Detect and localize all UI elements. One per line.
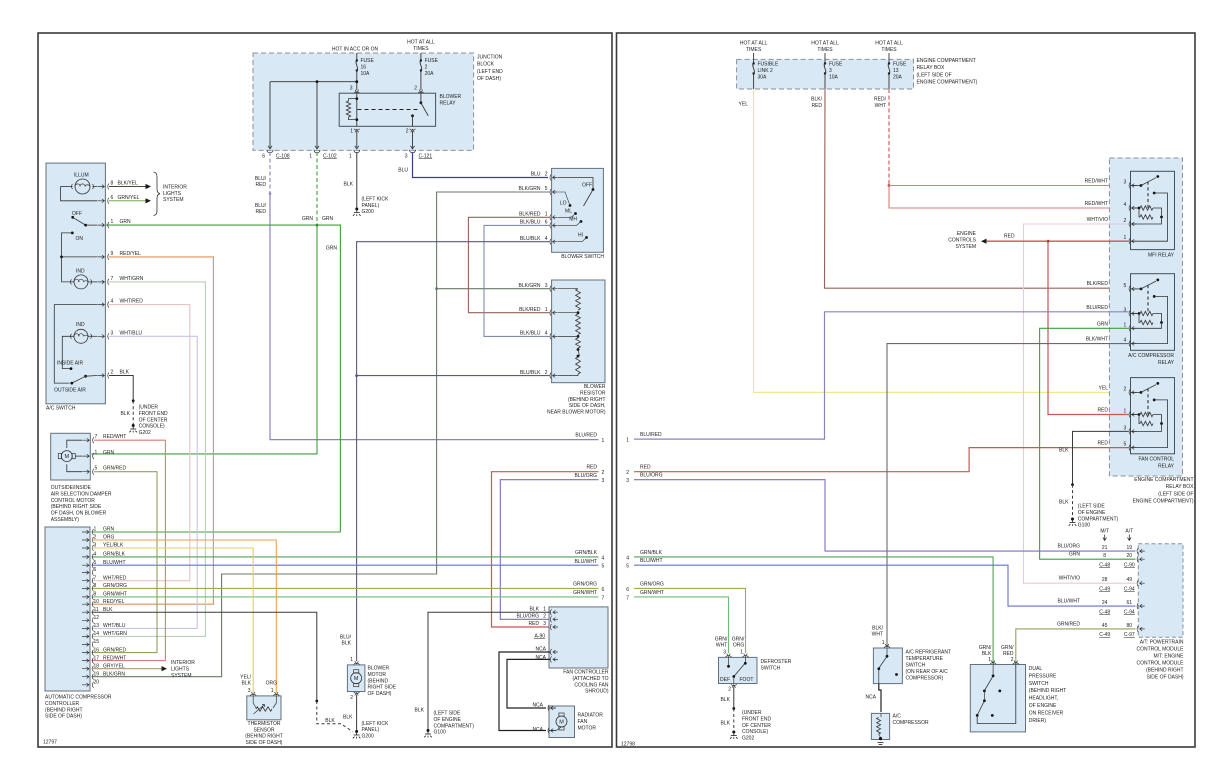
svg-text:3: 3: [1124, 308, 1127, 314]
svg-text:DEFROSTER: DEFROSTER: [761, 659, 792, 665]
svg-text:LIGHTS: LIGHTS: [171, 667, 190, 673]
svg-text:13: 13: [94, 623, 100, 629]
svg-text:2: 2: [626, 470, 629, 476]
svg-text:BLK: BLK: [982, 651, 992, 657]
svg-text:BLU/WHT: BLU/WHT: [103, 560, 126, 566]
automatic compressor controller box: [45, 527, 90, 691]
svg-text:MOTOR: MOTOR: [368, 672, 387, 678]
svg-text:RED/WHT: RED/WHT: [103, 655, 126, 661]
off-page GRN/ORG 6 from ACC pin8: [92, 587, 599, 589]
svg-text:(UNDER: (UNDER: [742, 710, 762, 716]
svg-text:TIMES: TIMES: [746, 47, 762, 53]
svg-text:10: 10: [94, 599, 100, 605]
svg-text:GRN/YEL: GRN/YEL: [118, 195, 140, 201]
svg-text:RED: RED: [1097, 441, 1108, 447]
pin 4 WHT/RED inner loop: [54, 305, 97, 384]
svg-text:5: 5: [95, 466, 98, 472]
svg-text:OF ENGINE: OF ENGINE: [1078, 510, 1106, 516]
wire RED off-page to fan control relay pin5: [634, 448, 1129, 472]
svg-text:RED: RED: [586, 465, 597, 471]
page frame right: [617, 33, 1196, 747]
ACC pin 17 RED/WHT: [82, 659, 89, 663]
svg-text:RELAY BOX: RELAY BOX: [1166, 484, 1195, 490]
wire NCA inner loop: [507, 659, 550, 708]
svg-text:BLU/RED: BLU/RED: [640, 432, 662, 438]
svg-text:GRN/RED: GRN/RED: [1057, 621, 1080, 627]
wire BLK fan relay pin3 to G100: [1073, 431, 1129, 484]
wire GRN/RED dual pressure to PCM: [1016, 629, 1136, 663]
svg-text:BLU/BLK: BLU/BLK: [520, 236, 541, 242]
svg-text:19: 19: [94, 671, 100, 677]
wire WHT/BLU to ACC pin13: [92, 336, 198, 628]
blower relay: [339, 93, 435, 126]
svg-text:16: 16: [94, 647, 100, 653]
svg-text:LIGHTS: LIGHTS: [163, 191, 182, 197]
svg-text:OUTSIDE AIR: OUTSIDE AIR: [54, 387, 86, 393]
svg-text:BLK: BLK: [121, 411, 131, 417]
junction block J/B: [253, 53, 474, 150]
svg-text:RELAY: RELAY: [1158, 464, 1175, 470]
svg-text:A/C REFRIGERANT: A/C REFRIGERANT: [906, 650, 952, 656]
svg-text:BLU/ORG: BLU/ORG: [574, 473, 597, 479]
svg-text:8: 8: [1103, 553, 1106, 559]
svg-text:CONTROL MODULE: CONTROL MODULE: [1136, 661, 1184, 667]
blower switch internals: [558, 178, 593, 190]
svg-text:5: 5: [1124, 283, 1127, 289]
svg-text:21: 21: [1102, 545, 1108, 551]
svg-text:OF DASH, ON BLOWER: OF DASH, ON BLOWER: [51, 511, 107, 517]
dual pressure switch box: [970, 665, 1025, 732]
svg-text:HOT AT ALL: HOT AT ALL: [740, 41, 768, 47]
fuse 16 10A: [356, 53, 358, 61]
svg-text:INSIDE AIR: INSIDE AIR: [57, 360, 84, 366]
svg-text:RED/WHT: RED/WHT: [1085, 201, 1108, 207]
svg-text:FAN CONTROL: FAN CONTROL: [1138, 457, 1174, 463]
svg-text:BLK: BLK: [325, 718, 335, 724]
pin 6 GRN/YEL: [97, 199, 104, 203]
svg-text:6: 6: [626, 587, 629, 593]
blower switch pin 6 BLK/BLU: [550, 222, 551, 228]
svg-text:WHT/BLU: WHT/BLU: [103, 623, 126, 629]
svg-text:HI: HI: [578, 233, 583, 239]
svg-text:12797: 12797: [43, 740, 57, 746]
on contact: [71, 232, 74, 235]
svg-text:IND: IND: [76, 268, 85, 274]
svg-text:3: 3: [626, 478, 629, 484]
svg-text:17: 17: [94, 655, 100, 661]
ACC pin 4 GRN/BLK: [82, 555, 89, 559]
blower motor box: [347, 665, 365, 692]
svg-text:RED/YEL: RED/YEL: [103, 599, 125, 605]
svg-text:ENGINE: ENGINE: [957, 231, 977, 237]
wire YEL fusible link to fan control relay: [754, 89, 1129, 392]
svg-text:OF ENGINE: OF ENGINE: [434, 717, 462, 723]
svg-text:BLK: BLK: [530, 606, 540, 612]
svg-text:GRN: GRN: [1069, 552, 1081, 558]
svg-text:ML: ML: [565, 209, 572, 215]
svg-text:RADIATOR: RADIATOR: [578, 713, 604, 719]
ACC pin 12: [82, 619, 89, 623]
svg-text:45: 45: [1102, 623, 1108, 629]
svg-text:WHT/GRN: WHT/GRN: [103, 631, 127, 637]
svg-text:NCA: NCA: [532, 727, 543, 733]
svg-text:FUSE: FUSE: [829, 62, 843, 68]
ACC pin 10 RED/YEL: [82, 602, 89, 606]
wire RED/YEL to ACC pin10: [92, 257, 214, 604]
svg-text:FRONT END: FRONT END: [742, 716, 771, 722]
svg-text:GRN/ORG: GRN/ORG: [573, 581, 597, 587]
svg-text:2: 2: [602, 470, 605, 476]
svg-text:(ATTACHED TO: (ATTACHED TO: [572, 676, 608, 682]
wire WHT/VIO MFI pin2 to PCM: [1024, 224, 1136, 583]
ACC pin 8 GRN/ORG: [82, 587, 89, 591]
svg-text:5: 5: [545, 186, 548, 192]
svg-text:SIDE OF DASH,: SIDE OF DASH,: [569, 403, 606, 409]
svg-text:1: 1: [626, 438, 629, 444]
blower resistor pin 3 BLK/GRN: [550, 286, 551, 292]
svg-text:BLK: BLK: [344, 182, 354, 188]
svg-text:G202: G202: [139, 430, 151, 436]
svg-text:BLK: BLK: [1059, 499, 1069, 505]
svg-text:24: 24: [1102, 600, 1108, 606]
svg-text:FUSE: FUSE: [361, 58, 375, 64]
ACC pin 13 WHT/BLU: [82, 627, 89, 631]
wire fuse16 to C-108/C-102 branch: [270, 81, 357, 83]
svg-text:20: 20: [94, 680, 100, 686]
svg-text:BLOWER: BLOWER: [584, 384, 606, 390]
svg-text:OF CENTER: OF CENTER: [139, 417, 168, 423]
svg-text:BLU/WHT: BLU/WHT: [575, 559, 598, 565]
svg-text:IND: IND: [76, 322, 85, 328]
svg-text:OF CENTER: OF CENTER: [742, 723, 771, 729]
svg-text:GRN: GRN: [103, 527, 115, 533]
svg-text:BLK/: BLK/: [811, 97, 822, 103]
defroster switch box: [719, 657, 758, 683]
svg-text:DEF: DEF: [720, 677, 730, 683]
wire NCA outer loop: [499, 652, 550, 731]
svg-text:M: M: [354, 676, 359, 682]
svg-text:AIR SELECTION DAMPER: AIR SELECTION DAMPER: [51, 491, 112, 497]
fan controller box: [549, 607, 608, 668]
svg-text:SWITCH: SWITCH: [906, 663, 926, 669]
outside/inside air damper control motor: [51, 433, 91, 480]
fan controller pin 2 BLU/ORG: [550, 616, 551, 622]
svg-text:3: 3: [1124, 180, 1127, 186]
svg-text:12: 12: [94, 615, 100, 621]
svg-text:WHT: WHT: [716, 643, 727, 649]
svg-text:A/C COMPRESSOR: A/C COMPRESSOR: [1128, 353, 1174, 359]
pin 8 BLK/YEL: [97, 185, 104, 189]
svg-text:GRN/RED: GRN/RED: [103, 466, 126, 472]
wire BLK to G202: [109, 376, 133, 401]
connector C-102: [314, 150, 320, 153]
svg-text:BLU/RED: BLU/RED: [575, 433, 597, 439]
off-page RED 2 to fan controller: [492, 472, 599, 627]
svg-text:G202: G202: [742, 736, 754, 742]
svg-text:GRN/: GRN/: [715, 636, 728, 642]
svg-text:2: 2: [1124, 386, 1127, 392]
svg-text:6: 6: [602, 587, 605, 593]
svg-text:6: 6: [262, 154, 265, 160]
engine compartment relay box top: [737, 59, 914, 89]
svg-text:M/T: ENGINE: M/T: ENGINE: [1153, 654, 1184, 660]
fan control relay: [1131, 378, 1175, 454]
svg-text:3: 3: [543, 621, 546, 627]
wire GRN a/c switch to ACC: [92, 225, 341, 532]
svg-text:G100: G100: [434, 730, 446, 736]
svg-text:4: 4: [94, 552, 97, 558]
wire BLK/BLU switch to resistor: [484, 225, 550, 336]
svg-text:RED: RED: [1004, 234, 1015, 240]
wire BLK/RED fuse3 to a/c compressor relay: [825, 89, 1129, 288]
svg-text:1: 1: [95, 450, 98, 456]
svg-text:WHT: WHT: [872, 632, 883, 638]
pin 7 WHT/GRN: [97, 280, 104, 284]
off-page GRN/BLK 4 from ACC pin4: [92, 556, 599, 558]
svg-text:3: 3: [1124, 425, 1127, 431]
svg-text:A/C: A/C: [893, 714, 902, 720]
svg-text:WHT: WHT: [875, 103, 886, 109]
wire BLK defroster to G202: [733, 687, 735, 709]
svg-text:5: 5: [1124, 442, 1127, 448]
svg-text:GRN/BLK: GRN/BLK: [575, 550, 598, 556]
svg-text:BLU/WHT: BLU/WHT: [640, 558, 663, 564]
svg-text:1: 1: [94, 527, 97, 533]
svg-text:DRIER): DRIER): [1029, 718, 1047, 724]
svg-text:RELAY: RELAY: [440, 101, 457, 107]
svg-text:2: 2: [111, 370, 114, 376]
svg-text:7: 7: [95, 434, 98, 440]
svg-text:4: 4: [1124, 202, 1127, 208]
svg-text:9: 9: [94, 592, 97, 598]
wire BLK/RED switch to resistor: [468, 217, 549, 312]
svg-text:BLK/RED: BLK/RED: [519, 212, 541, 218]
wire BLU/RED from C-108: [269, 152, 271, 194]
pin 3 WHT/BLU: [97, 335, 104, 339]
svg-text:CONTROLS: CONTROLS: [948, 238, 976, 244]
ACC pin 15: [82, 643, 89, 647]
svg-text:BLK/YEL: BLK/YEL: [118, 181, 139, 187]
svg-text:3: 3: [350, 85, 353, 91]
PCM row pins 28/49: [1137, 580, 1138, 586]
svg-text:RESISTOR: RESISTOR: [580, 390, 606, 396]
svg-text:INTERIOR: INTERIOR: [163, 185, 187, 191]
svg-text:COOLING FAN: COOLING FAN: [574, 682, 609, 688]
svg-text:DUAL: DUAL: [1029, 666, 1043, 672]
svg-text:GRN: GRN: [103, 450, 115, 456]
svg-text:BLK/GRN: BLK/GRN: [519, 283, 541, 289]
svg-text:(ON REAR OF A/C: (ON REAR OF A/C: [906, 669, 949, 675]
svg-text:SIDE OF DASH): SIDE OF DASH): [1147, 675, 1184, 681]
svg-text:PRESSURE: PRESSURE: [1029, 673, 1057, 679]
relay switch: [420, 93, 422, 103]
svg-text:CONTROL MOTOR: CONTROL MOTOR: [51, 498, 96, 504]
svg-text:TIMES: TIMES: [881, 47, 897, 53]
wire RED/WHT to MFI pin4: [889, 186, 1129, 209]
svg-text:SYSTEM: SYSTEM: [171, 673, 192, 679]
svg-text:YEL: YEL: [739, 102, 749, 108]
svg-text:BLK: BLK: [721, 721, 731, 727]
svg-text:2: 2: [406, 128, 409, 134]
svg-text:1: 1: [350, 128, 353, 134]
svg-text:3: 3: [723, 649, 726, 655]
svg-text:10A: 10A: [829, 75, 839, 81]
blower switch pin 5 BLK/GRN: [550, 189, 551, 195]
wire GRN from C-102 down: [316, 152, 318, 225]
svg-text:14: 14: [94, 631, 100, 637]
svg-text:JUNCTION: JUNCTION: [477, 55, 503, 61]
wire WHT/RED to ACC pin7: [92, 305, 190, 581]
svg-text:BLOWER: BLOWER: [368, 666, 390, 672]
svg-text:AUTOMATIC COMPRESSOR: AUTOMATIC COMPRESSOR: [45, 695, 112, 701]
svg-text:BLU/ORG: BLU/ORG: [640, 473, 663, 479]
svg-text:COMPRESSOR): COMPRESSOR): [906, 676, 944, 682]
svg-text:BLU: BLU: [531, 172, 541, 178]
pin 1 GRN: [97, 223, 104, 227]
wire BLU/RED off-page to a/c relay pin3: [634, 312, 1129, 439]
A/C compressor relay: [1131, 274, 1175, 351]
svg-text:(BEHIND RIGHT SIDE: (BEHIND RIGHT SIDE: [51, 504, 102, 510]
svg-text:HOT AT ALL: HOT AT ALL: [407, 40, 435, 46]
svg-text:FAN: FAN: [578, 719, 588, 725]
svg-text:3: 3: [405, 154, 408, 160]
svg-text:16: 16: [361, 65, 367, 71]
ACC pin18 GRY/YEL interior lights arrow: [92, 668, 162, 670]
svg-text:GRN: GRN: [120, 219, 132, 225]
svg-text:TIMES: TIMES: [817, 47, 833, 53]
blower switch pin 4 BLU/BLK: [550, 239, 551, 245]
svg-text:FUSE: FUSE: [425, 58, 439, 64]
svg-text:BLOCK: BLOCK: [477, 62, 495, 68]
svg-text:(LEFT SIDE OF: (LEFT SIDE OF: [917, 72, 952, 78]
off-page BLU/ORG 3 to fan controller: [500, 480, 598, 620]
svg-text:2: 2: [545, 172, 548, 178]
svg-text:2: 2: [1124, 218, 1127, 224]
svg-text:4: 4: [545, 331, 548, 337]
ACC pin 18 GRY/YEL: [82, 667, 89, 671]
relay coil: [356, 93, 358, 126]
svg-text:BLU/RED: BLU/RED: [1086, 305, 1108, 311]
svg-text:M: M: [559, 720, 564, 726]
blower resistor pin 4 BLK/BLU: [550, 333, 551, 339]
svg-text:20: 20: [1127, 553, 1133, 559]
svg-text:TEMPERATURE: TEMPERATURE: [906, 656, 944, 662]
svg-text:MOTOR: MOTOR: [578, 725, 597, 731]
svg-text:LO: LO: [560, 201, 567, 207]
svg-text:GRN: GRN: [322, 216, 334, 222]
PCM row pins 45/80: [1137, 626, 1138, 632]
svg-text:OF DASH): OF DASH): [477, 76, 501, 82]
svg-text:(LEFT KICK: (LEFT KICK: [362, 197, 390, 203]
fan controller pin 3 RED: [550, 624, 551, 630]
fan controller NCA pins: [550, 649, 551, 655]
ACC pin 7 WHT/RED: [82, 579, 89, 583]
svg-text:RED: RED: [1097, 408, 1108, 414]
svg-text:3: 3: [545, 283, 548, 289]
svg-text:THERMISTOR: THERMISTOR: [248, 721, 281, 727]
svg-text:SHROUD): SHROUD): [585, 689, 609, 695]
svg-text:15: 15: [94, 639, 100, 645]
svg-text:ENGINE COMPARTMENT): ENGINE COMPARTMENT): [917, 80, 978, 86]
wire BLK ACC pin11 to G200: [92, 612, 317, 701]
svg-text:RED: RED: [255, 209, 266, 215]
powertrain control module box: [1138, 544, 1183, 637]
svg-text:ASSEMBLY): ASSEMBLY): [51, 517, 80, 523]
svg-text:1: 1: [349, 154, 352, 160]
svg-text:FUSE: FUSE: [893, 62, 907, 68]
radiator fan motor box: [549, 706, 575, 738]
svg-text:SYSTEM: SYSTEM: [955, 244, 976, 250]
svg-text:ILLUM: ILLUM: [74, 173, 89, 179]
svg-text:(BEHIND RIGHT: (BEHIND RIGHT: [245, 734, 283, 740]
svg-text:4: 4: [626, 555, 629, 561]
blower switch pin 2 BLU: [550, 175, 551, 181]
svg-text:2: 2: [545, 370, 548, 376]
svg-text:BLK: BLK: [415, 707, 425, 713]
svg-text:1: 1: [309, 154, 312, 160]
fuse 13 20A: [888, 53, 890, 64]
svg-text:OF ENGINE: OF ENGINE: [1029, 703, 1057, 709]
svg-text:G200: G200: [362, 209, 374, 215]
svg-text:1: 1: [882, 640, 885, 646]
svg-text:RED: RED: [811, 103, 822, 109]
svg-text:1: 1: [988, 657, 991, 663]
interior lights brace: [154, 172, 161, 216]
svg-text:61: 61: [1127, 600, 1133, 606]
fan controller pin 1 BLK: [550, 609, 551, 615]
svg-text:80: 80: [1127, 623, 1133, 629]
svg-text:BLK/: BLK/: [872, 625, 883, 631]
svg-text:4: 4: [1124, 338, 1127, 344]
svg-text:BLK/RED: BLK/RED: [519, 307, 541, 313]
wire BLU from C-121 to blower switch: [413, 152, 549, 178]
svg-text:7: 7: [626, 595, 629, 601]
svg-text:10A: 10A: [361, 71, 371, 77]
wire GRN a/c relay pin1 to PCM: [1040, 328, 1136, 559]
svg-text:OFF: OFF: [582, 183, 592, 189]
svg-text:7: 7: [111, 276, 114, 282]
svg-text:RELAY: RELAY: [1158, 360, 1175, 366]
off-page BLU/WHT 5 from ACC pin5: [92, 564, 599, 566]
svg-text:6: 6: [111, 195, 114, 201]
svg-text:PANEL): PANEL): [362, 727, 380, 733]
svg-text:GRN/RED: GRN/RED: [103, 647, 126, 653]
svg-text:RED: RED: [255, 182, 266, 188]
ACC pin 14 WHT/GRN: [82, 635, 89, 639]
svg-text:ENGINE COMPARTMENT): ENGINE COMPARTMENT): [1133, 499, 1194, 505]
svg-text:8: 8: [94, 583, 97, 589]
svg-text:BLU/WHT: BLU/WHT: [1058, 599, 1081, 605]
svg-text:BLU/BLK: BLU/BLK: [520, 370, 541, 376]
svg-text:WHT/GRN: WHT/GRN: [120, 276, 144, 282]
svg-text:RED: RED: [1003, 651, 1014, 657]
svg-text:YEL: YEL: [1099, 385, 1109, 391]
svg-text:COMPARTMENT): COMPARTMENT): [434, 723, 475, 729]
svg-text:BLU/ORG: BLU/ORG: [1057, 544, 1080, 550]
svg-text:ENGINE COMPARTMENT: ENGINE COMPARTMENT: [917, 58, 976, 64]
svg-text:BLU: BLU: [398, 168, 408, 174]
thermistor element: [253, 696, 256, 708]
svg-text:OUTSIDE/INSIDE: OUTSIDE/INSIDE: [51, 485, 92, 491]
svg-text:1: 1: [271, 688, 274, 694]
ACC pin 9 GRN/WHT: [82, 595, 89, 599]
ACC pin 20: [82, 683, 89, 687]
svg-text:GRN/: GRN/: [1001, 645, 1014, 651]
svg-text:ORG: ORG: [266, 681, 278, 687]
svg-text:28: 28: [1102, 577, 1108, 583]
svg-text:FUSIBLE: FUSIBLE: [758, 62, 780, 68]
svg-text:BLK: BLK: [1059, 447, 1069, 453]
